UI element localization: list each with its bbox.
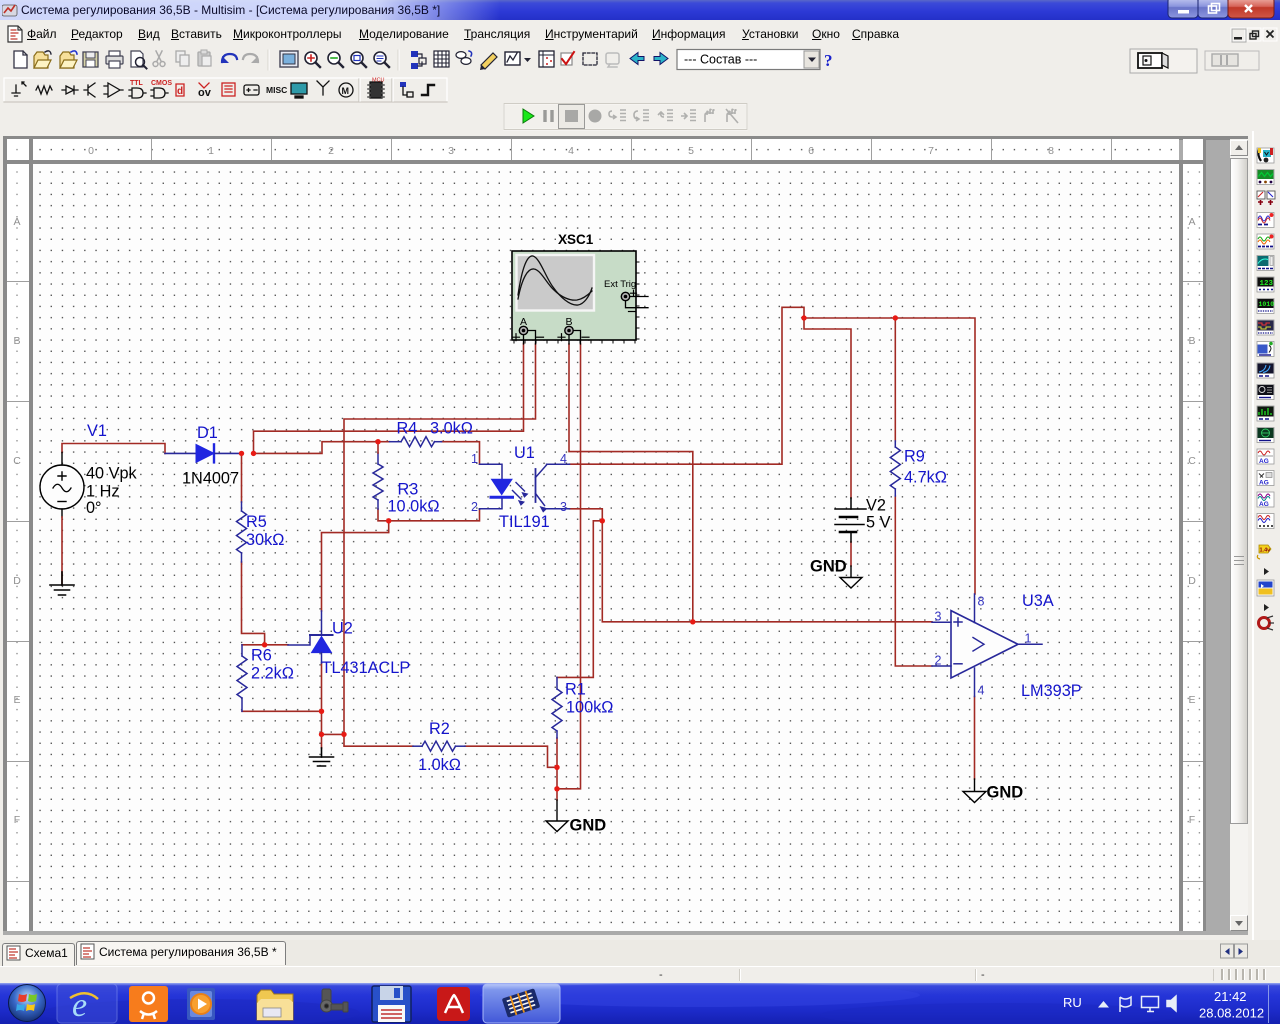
zoom out: [328, 52, 340, 64]
svg-text:U2: U2: [332, 620, 353, 638]
svg-text:123: 123: [1260, 280, 1274, 288]
wire U1 pin4 to V+ rail: [570, 307, 805, 464]
wattmeter: [1257, 191, 1275, 205]
svg-text:5 V: 5 V: [866, 514, 891, 532]
svg-text:1.0kΩ: 1.0kΩ: [418, 756, 461, 774]
media: [187, 988, 215, 1020]
svg-text:AG: AG: [1259, 480, 1269, 487]
MCU: [370, 82, 382, 98]
resistor R2: [413, 741, 465, 751]
distortion analyzer: [1257, 385, 1274, 400]
comparator U3A: [932, 594, 1042, 697]
svg-text:R1: R1: [565, 681, 586, 699]
svg-text:R3: R3: [398, 481, 419, 499]
svg-text:28.08.2012: 28.08.2012: [1199, 1006, 1264, 1021]
wire R5 bottom to R6 node: [242, 562, 265, 645]
resistor R9: [890, 441, 900, 496]
svg-text:U3A: U3A: [1022, 592, 1054, 610]
svg-text:1: 1: [1025, 632, 1032, 646]
floppy: [372, 986, 411, 1022]
2ch scope: [1257, 213, 1274, 228]
wire R6 bottom to U2 anode: [242, 710, 322, 712]
diode D1: [165, 444, 242, 462]
start orb: [9, 985, 46, 1022]
svg-text:3: 3: [560, 500, 567, 514]
power: [244, 85, 259, 95]
component values black: [86, 465, 891, 532]
svg-text:1N4007: 1N4007: [182, 470, 239, 488]
svg-text:A: A: [520, 316, 527, 328]
simulation toolbar: [0, 103, 1280, 131]
svg-text:1 Hz: 1 Hz: [86, 483, 119, 501]
scrollbar arrows: [1235, 145, 1243, 150]
freq counter: [1257, 277, 1274, 292]
svg-text:R5: R5: [246, 513, 267, 531]
cloudy texture: [40, 999, 360, 1024]
svg-text:R9: R9: [904, 448, 925, 466]
svg-text:Схема1: Схема1: [25, 946, 68, 960]
wire B+ probe to comparator input node: [569, 344, 693, 622]
svg-text:2: 2: [935, 654, 942, 668]
svg-text:40 Vpk: 40 Vpk: [86, 465, 138, 483]
svg-text:0°: 0°: [86, 499, 102, 517]
ground under R1: [546, 800, 568, 832]
forward: [654, 53, 668, 65]
instrument toolbar icons: [1252, 131, 1280, 940]
agilent multimeter: [1257, 471, 1274, 487]
agilent fgen: [1257, 449, 1274, 465]
4ch scope: [1257, 234, 1274, 249]
svg-text:U1: U1: [514, 444, 535, 462]
record: [589, 110, 602, 123]
svg-text:Ext Trig: Ext Trig: [604, 279, 636, 290]
voltage source V1: [40, 453, 84, 518]
multisim active: [483, 984, 560, 1023]
ground under U3A: [963, 779, 986, 803]
svg-text:1010: 1010: [1259, 301, 1275, 308]
wire R4 right to U1 pin1: [442, 442, 480, 465]
folder: [257, 990, 293, 1020]
svg-text:R6: R6: [251, 647, 272, 665]
network analyzer: [1257, 428, 1274, 443]
svg-text:AG: AG: [1259, 458, 1269, 465]
resistor R4: [390, 437, 442, 447]
junction dots: [239, 315, 898, 791]
bode plotter: [1257, 256, 1274, 271]
titlebar window buttons: [1166, 0, 1276, 20]
ERC: [561, 53, 572, 65]
transistor: [84, 83, 95, 97]
resistor R6: [237, 645, 247, 712]
wire V+ rail to V2 battery: [804, 318, 851, 498]
peripherals: [291, 83, 307, 94]
svg-text:2: 2: [471, 500, 478, 514]
misc digital: [176, 84, 184, 96]
copy (gray): [176, 51, 185, 62]
tab bar: [0, 940, 1280, 966]
svg-text:V1: V1: [87, 422, 107, 440]
save: [83, 52, 98, 67]
canvas background: [3, 136, 1248, 935]
IV analyzer: [1257, 363, 1274, 378]
svg-text:100kΩ: 100kΩ: [566, 699, 613, 717]
electromech: [339, 83, 353, 97]
svg-text:XSC1: XSC1: [558, 232, 594, 247]
svg-text:R2: R2: [429, 720, 450, 738]
graph + dd: [505, 52, 520, 65]
svg-text:3.0kΩ: 3.0kΩ: [430, 420, 473, 438]
toolbar row 1 icons: [0, 46, 1280, 77]
wire R3 bottom to U1 pin2: [378, 509, 480, 521]
svg-text:GND: GND: [810, 558, 847, 576]
diode: [62, 86, 78, 94]
database: [456, 52, 466, 59]
wire R1 top to U1 pin3 node: [557, 521, 602, 678]
svg-text:1.4v: 1.4v: [1260, 548, 1272, 554]
wire A- probe to R2 ground node: [344, 344, 536, 734]
wire V+ rail to comparator pin8: [804, 318, 975, 594]
battery V2: [835, 498, 866, 542]
wire D1 node to R4/R3 node: [254, 442, 379, 454]
svg-text:4: 4: [978, 684, 985, 698]
region dashed: [583, 53, 597, 65]
optocoupler U1: [480, 464, 570, 512]
small arrow 1: [1264, 568, 1269, 575]
zoom in: [305, 52, 317, 64]
pencil ruler: [481, 53, 497, 69]
svg-text:Система регулирования 36,5В *: Система регулирования 36,5В *: [99, 945, 277, 959]
wire R3 top stub: [377, 442, 379, 453]
wire U1 pin3 to comparator pin3: [570, 509, 933, 622]
logic analyzer: [1257, 320, 1274, 335]
bus: [422, 85, 434, 95]
full screen: [280, 51, 298, 67]
grid: [434, 51, 449, 67]
menu bar: [0, 20, 1280, 46]
spectrum analyzer: [1257, 406, 1274, 421]
svg-text:4: 4: [560, 452, 567, 466]
svg-text:LM393P: LM393P: [1021, 682, 1082, 700]
labview: [1257, 580, 1274, 596]
svg-text:2.2kΩ: 2.2kΩ: [251, 665, 294, 683]
toolbar row 2 icons: [0, 77, 1280, 103]
wire U2 anode to ground node: [322, 663, 345, 748]
combo: [677, 50, 820, 70]
wire R1 bottom to GND: [556, 738, 558, 800]
net labels GND: [570, 558, 1024, 835]
mixed: [199, 83, 209, 88]
small arrow 2: [1264, 604, 1269, 611]
resistor R3: [373, 453, 383, 509]
logic converter: [1257, 342, 1274, 357]
preview: [131, 51, 143, 67]
ground under V2: [840, 566, 862, 588]
wire R9 top: [894, 318, 896, 441]
status bar: [0, 966, 1280, 984]
wire V2 bottom to GND: [850, 542, 852, 566]
taskbar: [0, 983, 1280, 1024]
zoom area: [351, 52, 363, 64]
wire comparator pin4 to GND: [974, 697, 976, 780]
svg-text:AG: AG: [1259, 501, 1269, 508]
indicators: [222, 83, 235, 96]
svg-text:GND: GND: [987, 784, 1024, 802]
hierarchy block: [400, 82, 406, 87]
pause: [545, 110, 552, 122]
IE: [57, 984, 117, 1023]
svg-text:D1: D1: [197, 424, 218, 442]
word generator: [1257, 299, 1274, 314]
svg-text:-: -: [981, 969, 985, 981]
svg-text:V2: V2: [866, 497, 886, 515]
svg-text:3: 3: [935, 610, 942, 624]
svg-text:B: B: [566, 316, 573, 328]
component labels blue: [87, 420, 1082, 775]
pin numbers: [471, 452, 1032, 698]
paste (gray): [198, 52, 210, 66]
svg-text:10.0kΩ: 10.0kΩ: [388, 498, 440, 516]
adobe: [437, 987, 470, 1021]
wire R4 left stub: [378, 441, 390, 443]
wire R5 top: [241, 453, 243, 502]
hierarchy: [411, 51, 418, 57]
open: [34, 52, 48, 68]
CMOS: [151, 88, 168, 98]
zoom fit: [374, 52, 386, 64]
agilent scope: [1257, 492, 1274, 508]
svg-text:GND: GND: [570, 817, 607, 835]
ground under U2: [310, 748, 334, 766]
resistor R1: [552, 677, 562, 738]
sources: [12, 82, 26, 96]
redo (gray): [243, 54, 258, 62]
ground under V1: [50, 517, 74, 595]
svg-text:21:42: 21:42: [1214, 989, 1247, 1004]
multimeter: [1257, 148, 1274, 163]
right in-use boxes: [1130, 49, 1197, 73]
RF: [317, 81, 329, 95]
wire R2 right to R1 bottom node: [465, 746, 557, 767]
window title bar: [0, 0, 1280, 20]
svg-text:30kΩ: 30kΩ: [246, 531, 284, 549]
svg-text:TL431ACLP: TL431ACLP: [322, 659, 411, 677]
OK: [129, 986, 168, 1022]
wire U2 cathode riser: [322, 521, 389, 611]
new: [14, 51, 27, 68]
wire R6 top node to U2 ref: [242, 644, 288, 646]
svg-text:8: 8: [978, 595, 985, 609]
resistor R5: [237, 502, 247, 562]
open sample: [60, 52, 74, 68]
svg-text:4.7kΩ: 4.7kΩ: [904, 469, 947, 487]
probe: [1257, 545, 1271, 559]
spreadsheet: [539, 51, 554, 67]
stop pressed: [559, 105, 585, 129]
oscilloscope XSC1: [512, 251, 648, 344]
wire V1 top to D1 anode: [62, 444, 165, 454]
svg-text:TIL191: TIL191: [499, 513, 550, 531]
svg-text:-: -: [659, 969, 663, 981]
play: [523, 109, 534, 123]
undo: [222, 54, 237, 62]
print: [106, 56, 123, 64]
shunt regulator U2 TL431: [288, 611, 333, 663]
current clamp: [1259, 616, 1275, 630]
wire R9 bottom to comparator pin2: [895, 496, 932, 666]
TTL: [129, 88, 146, 98]
menubar mdi icon + buttons: [0, 20, 1280, 46]
cut (gray): [156, 51, 162, 61]
svg-text:RU: RU: [1063, 995, 1082, 1010]
basic/resistor: [36, 86, 52, 94]
wire D1 cathode node to A+ scope probe: [254, 344, 524, 454]
wire B- probe to R1 bottom node: [557, 344, 581, 789]
wire node to R2 left: [344, 734, 413, 746]
function generator: [1257, 170, 1274, 185]
tektronix scope: [1257, 514, 1274, 529]
analog: [104, 83, 123, 97]
svg-text:1: 1: [471, 452, 478, 466]
back: [630, 53, 644, 65]
svg-text:R4: R4: [397, 420, 418, 438]
region gray: [606, 53, 619, 64]
key tool: [321, 989, 349, 1012]
